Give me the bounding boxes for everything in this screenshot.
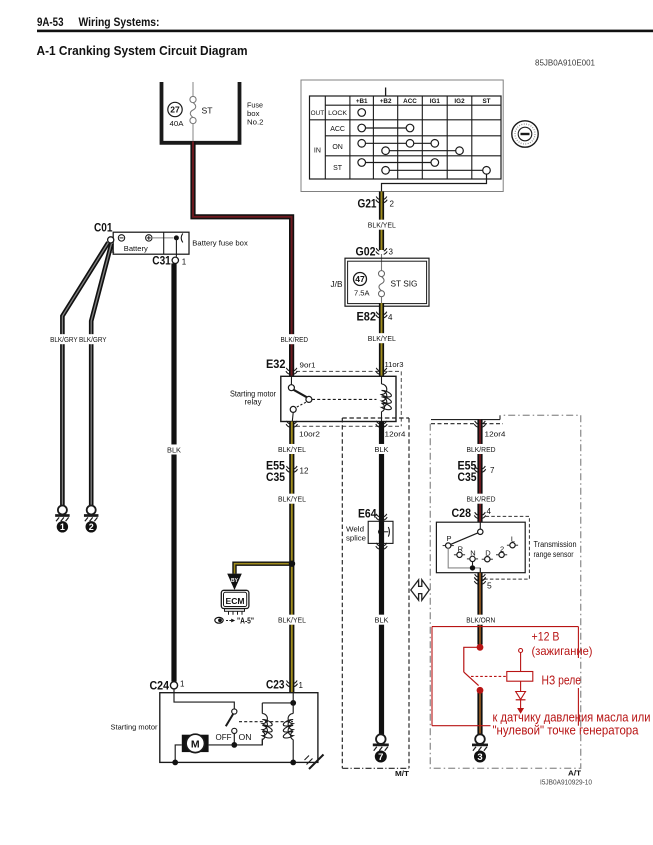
svg-text:7: 7: [378, 752, 383, 763]
svg-text:splice: splice: [346, 534, 366, 543]
svg-text:ST: ST: [482, 98, 490, 105]
svg-text:Starting motor: Starting motor: [111, 723, 158, 732]
svg-text:BLK/RED: BLK/RED: [281, 337, 309, 344]
svg-text:E82: E82: [357, 312, 377, 324]
svg-text:C31: C31: [152, 256, 171, 268]
svg-text:ACC: ACC: [330, 126, 345, 133]
svg-text:relay: relay: [245, 398, 262, 407]
svg-text:4: 4: [487, 507, 492, 516]
svg-text:E32: E32: [266, 359, 286, 371]
svg-text:G02: G02: [356, 247, 376, 259]
svg-text:C35: C35: [458, 472, 478, 484]
svg-text:J/B: J/B: [331, 280, 343, 289]
svg-text:4: 4: [388, 313, 393, 322]
svg-text:85JB0A910E001: 85JB0A910E001: [535, 59, 596, 68]
svg-text:"нулевой" точке генератора: "нулевой" точке генератора: [493, 724, 639, 738]
svg-text:BY: BY: [231, 578, 239, 584]
svg-text:(зажигание): (зажигание): [532, 644, 593, 658]
svg-text:IG2: IG2: [454, 98, 465, 105]
svg-text:2: 2: [89, 522, 94, 532]
svg-text:ON: ON: [332, 144, 343, 151]
svg-text:IG1: IG1: [430, 98, 441, 105]
svg-text:12: 12: [300, 467, 309, 476]
svg-text:Weld: Weld: [346, 525, 364, 534]
svg-text:BLK: BLK: [167, 447, 181, 454]
svg-text:I5JB0A910929-10: I5JB0A910929-10: [540, 780, 592, 787]
svg-text:BLK: BLK: [375, 618, 389, 625]
svg-text:BLK/GRY: BLK/GRY: [50, 337, 78, 344]
svg-text:1: 1: [299, 681, 304, 690]
svg-text:P: P: [446, 534, 451, 543]
svg-text:3: 3: [477, 752, 482, 763]
svg-text:E55: E55: [266, 461, 286, 473]
svg-text:ST: ST: [202, 106, 213, 116]
svg-text:A-1 Cranking System Circuit Di: A-1 Cranking System Circuit Diagram: [37, 44, 248, 58]
svg-text:ON: ON: [239, 733, 252, 742]
svg-text:OFF: OFF: [216, 733, 232, 742]
svg-text:7.5A: 7.5A: [354, 289, 370, 298]
svg-text:A/T: A/T: [568, 771, 582, 778]
svg-text:1: 1: [110, 246, 115, 255]
svg-text:BLK/YEL: BLK/YEL: [278, 447, 306, 454]
svg-text:НЗ реле: НЗ реле: [542, 674, 582, 688]
svg-text:BLK/YEL: BLK/YEL: [278, 497, 306, 504]
svg-text:Wiring Systems:: Wiring Systems:: [79, 17, 160, 29]
svg-text:G21: G21: [358, 199, 378, 211]
svg-text:1: 1: [182, 258, 187, 267]
svg-text:+B1: +B1: [356, 98, 368, 105]
svg-text:M/T: M/T: [395, 771, 410, 778]
svg-text:к датчику давления масла или: к датчику давления масла или: [493, 711, 651, 725]
svg-text:C01: C01: [94, 223, 113, 235]
svg-text:7: 7: [490, 466, 495, 475]
svg-text:BLK/YEL: BLK/YEL: [368, 223, 396, 230]
svg-text:BLK/YEL: BLK/YEL: [368, 336, 396, 343]
svg-text:"A-5": "A-5": [237, 617, 254, 626]
svg-text:BLK/GRY: BLK/GRY: [79, 337, 107, 344]
svg-text:C23: C23: [266, 680, 285, 692]
svg-text:2: 2: [500, 544, 504, 553]
svg-text:E64: E64: [358, 509, 377, 521]
svg-text:No.2: No.2: [247, 118, 264, 127]
svg-text:ST SIG: ST SIG: [391, 279, 418, 289]
svg-text:C28: C28: [452, 508, 472, 520]
svg-text:9A-53: 9A-53: [37, 17, 64, 29]
svg-text:+B2: +B2: [380, 98, 392, 105]
svg-text:ECM: ECM: [226, 597, 245, 606]
svg-text:2: 2: [390, 200, 395, 209]
svg-text:M: M: [191, 738, 200, 750]
svg-text:L: L: [511, 534, 515, 543]
svg-text:IN: IN: [314, 148, 321, 155]
svg-text:11or3: 11or3: [385, 360, 404, 369]
svg-text:BLK: BLK: [375, 447, 389, 454]
svg-text:Battery fuse box: Battery fuse box: [192, 238, 248, 247]
svg-text:+12 В: +12 В: [532, 630, 560, 644]
svg-text:1: 1: [180, 680, 185, 689]
svg-text:27: 27: [170, 105, 180, 115]
svg-text:ST: ST: [333, 165, 343, 172]
svg-text:N: N: [470, 548, 475, 557]
svg-text:40A: 40A: [170, 121, 184, 128]
svg-text:Battery: Battery: [124, 244, 148, 253]
svg-text:BLK/ORN: BLK/ORN: [466, 618, 495, 625]
svg-text:1: 1: [60, 522, 65, 532]
svg-text:9or1: 9or1: [300, 361, 316, 370]
svg-text:47: 47: [355, 274, 365, 284]
svg-text:BLK/RED: BLK/RED: [467, 497, 496, 504]
svg-text:BLK/RED: BLK/RED: [467, 447, 496, 454]
svg-text:OUT: OUT: [311, 110, 325, 117]
svg-text:10or2: 10or2: [299, 430, 320, 439]
svg-text:5: 5: [487, 581, 492, 591]
svg-text:BLK/YEL: BLK/YEL: [278, 618, 306, 625]
svg-text:12or4: 12or4: [385, 430, 406, 439]
svg-text:C24: C24: [150, 681, 170, 693]
svg-text:LOCK: LOCK: [328, 110, 348, 117]
svg-text:range sensor: range sensor: [534, 550, 574, 559]
svg-text:D: D: [485, 549, 491, 558]
svg-text:12or4: 12or4: [485, 430, 506, 439]
svg-text:R: R: [458, 544, 464, 553]
svg-text:E55: E55: [458, 461, 478, 473]
svg-text:3: 3: [389, 248, 394, 257]
svg-text:Transmission: Transmission: [534, 540, 577, 549]
svg-text:C35: C35: [266, 472, 286, 484]
svg-text:ACC: ACC: [403, 98, 417, 105]
